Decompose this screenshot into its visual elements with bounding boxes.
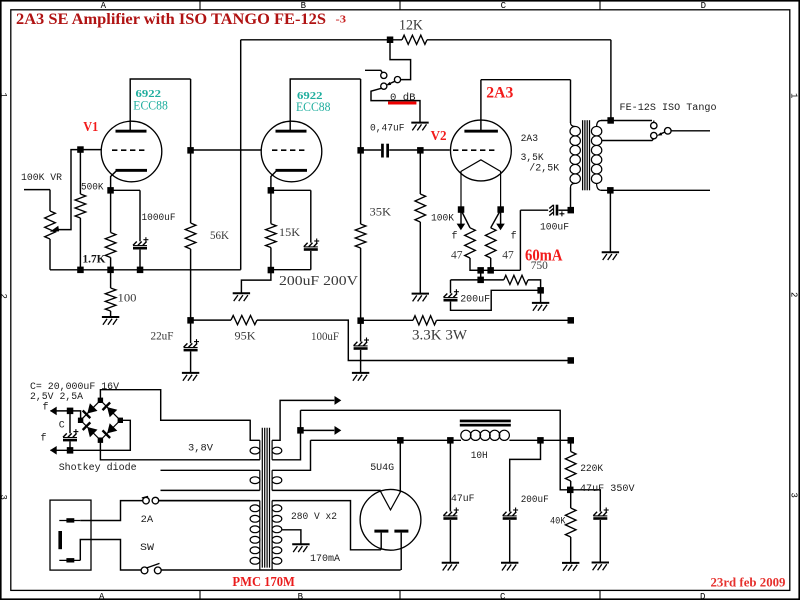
fuse 2A xyxy=(143,497,150,504)
svg-text:3.3K 3W: 3.3K 3W xyxy=(412,327,468,343)
svg-text:170mA: 170mA xyxy=(310,554,340,565)
V1 plate bar xyxy=(116,130,147,133)
5U4G filament xyxy=(380,491,400,510)
frame zone letters top xyxy=(101,1,706,11)
wire 0dB path to ground xyxy=(371,88,420,122)
node 2A3 grid xyxy=(417,147,424,154)
FE-12S secondary lead curves xyxy=(597,121,602,191)
ground under ECC88#2 cathode xyxy=(233,292,250,294)
PMC winding unused (left 2) xyxy=(161,469,260,471)
switch upper contact xyxy=(381,72,387,78)
svg-text:280 V x2: 280 V x2 xyxy=(291,512,337,523)
svg-text:3,5K: 3,5K xyxy=(521,153,544,164)
svg-text:f: f xyxy=(43,402,49,414)
svg-text:FE-12S ISO Tango: FE-12S ISO Tango xyxy=(620,103,717,114)
node 2A3 filament right xyxy=(497,206,504,213)
svg-text:f: f xyxy=(41,432,47,444)
node 56K bottom xyxy=(187,317,194,324)
capacitor 22uF xyxy=(190,320,192,343)
node 200uF tap xyxy=(537,437,544,444)
bridge node right xyxy=(118,418,123,423)
svg-text:2A3 SE Amplifier with ISO TAN: 2A3 SE Amplifier with ISO TANGO FE-12S xyxy=(16,11,326,28)
svg-text:35K: 35K xyxy=(370,204,392,218)
node hum pot ground xyxy=(537,287,544,294)
switch lever arm xyxy=(389,81,395,84)
transformer FE-12S secondary xyxy=(591,126,601,136)
wire bridge DC- xyxy=(51,420,131,450)
speaker selector contact tap xyxy=(651,132,657,138)
ECC88#2 grid dashes xyxy=(272,149,306,151)
V1 cathode bar xyxy=(116,169,148,172)
bridge diode bottom-right xyxy=(107,423,117,433)
PMC primary winding (left 3) xyxy=(159,500,260,502)
switch SW xyxy=(141,567,148,574)
bridge diode top-left xyxy=(87,403,97,413)
wire AC neutral xyxy=(80,540,141,571)
capacitor 0.47uF coupling xyxy=(361,149,381,151)
switch lower contact xyxy=(381,83,387,89)
ground under 100K xyxy=(412,293,429,295)
2A3 grid dashes xyxy=(453,149,497,151)
plug blade upper xyxy=(59,520,80,522)
capacitor 100uF cathode xyxy=(553,205,555,216)
svg-text:100K: 100K xyxy=(431,214,454,225)
wire NFB riser xyxy=(240,40,242,270)
ECC88#2 plate bar xyxy=(276,130,307,133)
ground HV center tap xyxy=(292,543,309,545)
wiper wire of VR xyxy=(58,150,81,230)
wire interstage V1-V2 xyxy=(191,149,262,151)
wire 2A3 cathode rail xyxy=(470,269,520,271)
ECC88#2 cathode lead xyxy=(271,171,276,190)
HV center tap xyxy=(282,530,301,545)
svg-text:40K: 40K xyxy=(550,516,566,527)
wire secondary ground stem xyxy=(609,190,611,252)
node secondary top xyxy=(607,117,614,124)
plug center pin xyxy=(58,531,62,549)
svg-text:SW: SW xyxy=(140,542,155,554)
svg-text:A: A xyxy=(101,1,107,11)
svg-text:2: 2 xyxy=(0,294,8,299)
svg-text:A: A xyxy=(99,592,105,600)
ECC88#2 cathode bar xyxy=(276,169,308,172)
tube V1 ECC88 xyxy=(101,121,162,182)
ground under 100uF xyxy=(352,372,369,374)
svg-text:3,8V: 3,8V xyxy=(188,443,213,454)
resistor 500K xyxy=(79,150,81,194)
node ECC88#2 cathode bottom xyxy=(268,267,275,274)
heater DC+ arrow xyxy=(50,407,57,416)
svg-text:220K: 220K xyxy=(580,464,603,475)
transformer FE-12S core xyxy=(582,120,584,190)
V1 cathode lead xyxy=(111,171,116,190)
switch NC stub xyxy=(365,70,382,73)
svg-text:47uF: 47uF xyxy=(451,494,475,505)
node rail-500K xyxy=(77,267,84,274)
node V1 plate xyxy=(187,147,194,154)
wire NFB top run xyxy=(241,39,402,41)
capacitor 100uF (driver B+) xyxy=(360,321,362,342)
node 47uF tap xyxy=(447,437,454,444)
svg-text:15K: 15K xyxy=(279,225,300,239)
ground under 100 xyxy=(102,316,119,318)
node 2A3 filament left xyxy=(458,206,465,213)
bridge diode top-right xyxy=(107,407,117,417)
wire secondary top xyxy=(601,120,652,122)
svg-text:56K: 56K xyxy=(210,228,229,242)
svg-text:B: B xyxy=(301,1,307,11)
wire V1 cathode rail xyxy=(50,269,241,271)
node divider tap xyxy=(567,487,574,494)
wire secondary bottom xyxy=(601,189,710,191)
svg-text:2A3: 2A3 xyxy=(521,134,539,145)
frame zone letters bottom xyxy=(99,592,705,602)
ground under 47uF xyxy=(442,562,459,564)
node rail-1000uF xyxy=(137,267,144,274)
svg-text:200uF: 200uF xyxy=(460,295,490,306)
ground under hum pot xyxy=(532,302,549,304)
tube 5U4G xyxy=(360,489,421,550)
red position bar xyxy=(388,102,416,105)
svg-text:0,47uF: 0,47uF xyxy=(370,123,405,134)
svg-text:f: f xyxy=(452,230,458,242)
svg-text:47uF 350V: 47uF 350V xyxy=(580,484,635,495)
plug blade lower xyxy=(59,559,80,561)
ground at 0dB switch xyxy=(411,122,428,124)
svg-text:47: 47 xyxy=(451,248,463,262)
resistor 40K xyxy=(570,490,572,508)
svg-text:D: D xyxy=(701,1,706,11)
wire input stub xyxy=(24,189,50,191)
svg-text:Shotkey diode: Shotkey diode xyxy=(59,462,137,474)
resistor 15K xyxy=(270,190,272,223)
svg-text:5U4G: 5U4G xyxy=(370,463,394,474)
switch pole contact xyxy=(394,77,400,83)
node 5U4G B+ xyxy=(397,437,404,444)
wire choke out xyxy=(509,439,570,441)
5U4G plate bars xyxy=(374,530,388,533)
V1 grid dashes xyxy=(112,149,146,151)
wire 2A3 plate to OPT xyxy=(480,80,482,131)
heater DC- arrow xyxy=(50,446,57,455)
AC plug box xyxy=(50,500,91,570)
svg-text:2A: 2A xyxy=(141,514,154,526)
wire B+ line xyxy=(311,439,462,441)
svg-text:500K: 500K xyxy=(81,182,104,193)
frame zone numbers right xyxy=(789,93,799,498)
node ECC88#2 cathode xyxy=(268,187,275,194)
node NFB 12K xyxy=(387,37,394,44)
capacitor 47uF xyxy=(449,440,451,511)
capacitor 1000uF xyxy=(111,189,140,191)
wire AC live xyxy=(80,501,142,521)
resistor 35K xyxy=(360,150,362,224)
resistor 3.3K 3W rail xyxy=(361,319,413,321)
svg-text:200uF 200V: 200uF 200V xyxy=(279,273,358,288)
svg-text:100uF: 100uF xyxy=(311,329,339,343)
svg-text:3: 3 xyxy=(789,493,799,498)
wire bridge AC1 xyxy=(100,390,250,421)
filament arrow left xyxy=(460,210,462,224)
wire V1 grid xyxy=(80,149,101,151)
svg-text:C: C xyxy=(59,421,65,432)
node heater tap xyxy=(297,427,304,434)
ground under 40K xyxy=(562,562,579,564)
svg-text:750: 750 xyxy=(531,258,548,272)
node B+ rail upper xyxy=(568,317,575,324)
resistor 95K rail xyxy=(191,319,231,321)
node filter cap top xyxy=(67,408,74,415)
5U4G plate leads xyxy=(380,533,382,550)
resistor 47 right xyxy=(491,210,501,228)
potentiometer VR 100K xyxy=(49,190,51,211)
wire 2A3 grid xyxy=(420,149,450,151)
svg-text:3: 3 xyxy=(0,495,8,500)
node B+ rail lower xyxy=(568,357,575,364)
heater arrow 2 xyxy=(301,429,335,431)
filament arrow right xyxy=(500,210,502,224)
bridge node top xyxy=(98,398,103,403)
svg-text:C: C xyxy=(500,592,506,600)
svg-text:1.7K: 1.7K xyxy=(83,253,106,265)
wire secondary tap xyxy=(602,139,654,141)
svg-text:2: 2 xyxy=(789,292,799,297)
node 35K bottom xyxy=(357,317,364,324)
svg-text:200uF: 200uF xyxy=(521,495,549,506)
ground under 47uF 350V xyxy=(592,562,609,564)
capacitor 200uF 200V bypass xyxy=(271,189,311,191)
wiper arrow xyxy=(50,226,59,232)
PMC winding 5V (right 2) xyxy=(271,470,273,490)
speaker selector pole xyxy=(665,128,672,135)
svg-text:/2,5K: /2,5K xyxy=(529,163,559,175)
node secondary bottom xyxy=(607,187,614,194)
capacitor 200uF cathode bypass xyxy=(450,280,452,293)
tube ECC88 #2 xyxy=(261,121,322,182)
wire V1 plate to top xyxy=(129,79,131,131)
svg-text:100uF: 100uF xyxy=(540,222,569,233)
resistor 100K grid leak xyxy=(419,150,421,194)
svg-text:2A3: 2A3 xyxy=(486,85,513,102)
tube 2A3 xyxy=(451,120,512,181)
node V1 grid xyxy=(77,146,84,153)
wire heater bias run xyxy=(301,410,571,490)
bridge diode bottom-left xyxy=(87,427,97,437)
resistor 750 hum pot xyxy=(451,279,504,281)
node B+ to OPT xyxy=(568,437,575,444)
choke 10H coil xyxy=(461,430,471,440)
wire bridge DC+ xyxy=(51,411,81,420)
svg-text:V1: V1 xyxy=(83,120,98,135)
svg-text:1: 1 xyxy=(789,93,799,98)
bridge node bottom xyxy=(98,438,103,443)
wire speaker output xyxy=(671,130,710,132)
svg-text:V2: V2 xyxy=(431,129,447,144)
svg-text:1: 1 xyxy=(0,93,8,98)
resistor 220K xyxy=(565,452,576,482)
svg-text:D: D xyxy=(700,592,705,600)
choke 10H core xyxy=(460,420,511,423)
wire NFB switch feed xyxy=(390,40,411,80)
resistor 47 left xyxy=(461,210,470,228)
wire ground stem ECC88#2 xyxy=(241,270,271,293)
speaker selector contact top xyxy=(653,121,655,123)
diode bridge edges xyxy=(81,400,121,440)
svg-text:100: 100 xyxy=(118,290,137,304)
2A3 plate bar xyxy=(464,130,498,133)
capacitor 47uF 350V xyxy=(570,490,600,512)
svg-text:PMC 170M: PMC 170M xyxy=(232,575,295,590)
wire 5U4G cathode up xyxy=(399,440,401,492)
frame tick marks xyxy=(199,2,201,10)
PMC HV winding 280Vx2 (right 3) xyxy=(271,501,273,570)
resistor 1.7K xyxy=(110,190,112,232)
wire AC bottom run xyxy=(161,569,400,571)
node rail-1.7K xyxy=(107,267,114,274)
bridge node left xyxy=(78,418,83,423)
svg-text:B: B xyxy=(298,592,304,600)
ground under 200uF xyxy=(501,562,518,564)
transformer PMC core xyxy=(261,428,263,568)
node filter cap bottom xyxy=(67,447,74,454)
resistor 100 xyxy=(110,270,112,288)
FE-12S primary lead curves xyxy=(571,123,576,188)
svg-text:100K VR: 100K VR xyxy=(21,173,62,184)
wire bridge AC2 xyxy=(100,440,259,460)
svg-text:12K: 12K xyxy=(399,17,423,33)
capacitor C 20000uF xyxy=(69,411,71,433)
svg-text:47: 47 xyxy=(502,248,514,262)
node ECC88#2 plate xyxy=(357,147,364,154)
PMC winding 2.5V (right 1) xyxy=(271,440,273,460)
wire 12K to OPT secondary xyxy=(427,39,611,41)
svg-text:22uF: 22uF xyxy=(151,329,174,343)
svg-text:1000uF: 1000uF xyxy=(142,213,176,224)
PMC winding 3.8V (left 1) xyxy=(161,420,260,440)
svg-text:-3: -3 xyxy=(336,13,347,25)
resistor 56K xyxy=(190,150,192,223)
selector lever xyxy=(660,132,665,134)
svg-text:ECC88: ECC88 xyxy=(133,98,168,112)
transformer FE-12S primary xyxy=(570,188,572,211)
capacitor 200uF filter xyxy=(510,440,541,511)
2A3 filament xyxy=(461,160,501,172)
svg-text:95K: 95K xyxy=(235,329,256,343)
svg-text:C: C xyxy=(501,1,507,11)
svg-text:10H: 10H xyxy=(471,451,488,462)
wire ECC88#2 plate to top xyxy=(289,79,291,131)
node V1 cathode xyxy=(107,187,114,194)
svg-text:f: f xyxy=(511,230,517,242)
resistor 12K xyxy=(402,35,427,44)
svg-text:ECC88: ECC88 xyxy=(296,100,331,114)
node OPT primary bottom xyxy=(568,207,575,214)
svg-text:2,5V 2,5A: 2,5V 2,5A xyxy=(30,392,83,403)
ground under 22uF xyxy=(182,372,199,374)
frame zone numbers left xyxy=(0,93,8,500)
ground under secondary xyxy=(602,251,619,253)
wire B+ riser xyxy=(570,440,572,451)
svg-text:23rd feb 2009: 23rd feb 2009 xyxy=(711,576,786,590)
